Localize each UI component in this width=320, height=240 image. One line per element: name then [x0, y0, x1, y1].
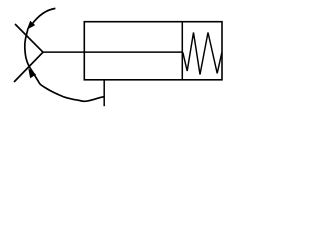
gripper jaw upper — [15, 24, 43, 52]
return spring — [183, 33, 222, 75]
motion arc left-bottom (swing ellipse to port) — [25, 29, 104, 102]
cylinder body (single-acting cylinder barrel) — [84, 22, 222, 80]
arrowhead of top motion arc — [28, 22, 35, 29]
piston — [181, 22, 183, 80]
gripper jaw lower — [14, 52, 43, 82]
port line — [103, 80, 105, 106]
piston rod — [43, 51, 182, 53]
motion arc top — [32, 8, 56, 24]
arrowhead on swing ellipse (lower, pointing up-left) — [29, 70, 35, 78]
